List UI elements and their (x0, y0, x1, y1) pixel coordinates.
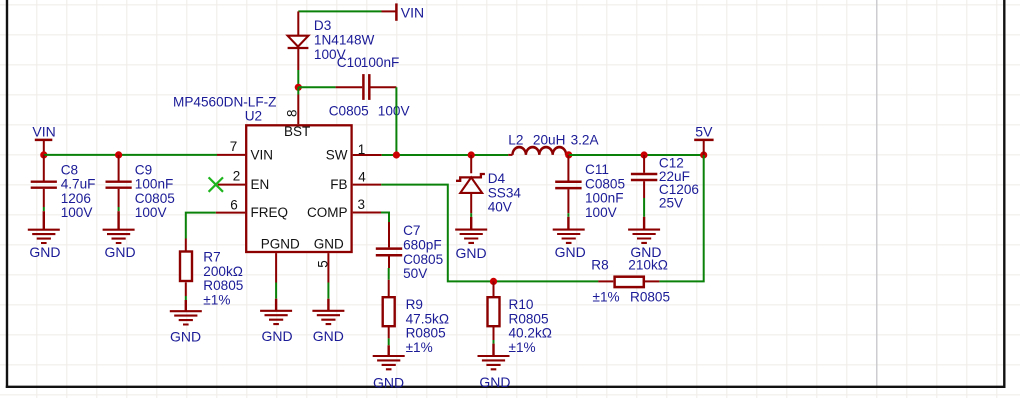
svg-text:20uH: 20uH (533, 133, 566, 148)
ground pin5 (327, 299, 329, 311)
resistor R10 (488, 281, 500, 340)
pin 5 GND (327, 253, 329, 282)
pin 1 SW (353, 154, 382, 156)
pin 7 VIN (217, 154, 245, 156)
svg-text:4.7uF: 4.7uF (61, 177, 96, 192)
svg-text:±1%: ±1% (593, 290, 620, 305)
svg-text:GND: GND (479, 374, 510, 390)
svg-text:C0805: C0805 (403, 252, 443, 267)
no-connect X on EN (209, 177, 223, 191)
node 5V corner (700, 151, 707, 158)
node D4 (468, 151, 475, 158)
wire 5V rail (569, 154, 704, 156)
svg-text:±1%: ±1% (406, 340, 433, 355)
svg-text:PGND: PGND (261, 236, 300, 251)
node C12 (641, 151, 648, 158)
svg-text:GND: GND (455, 245, 486, 261)
capacitor C7 (376, 222, 402, 268)
svg-text:C0805: C0805 (135, 191, 175, 206)
wire GND5 (327, 283, 329, 299)
power port VIN left (35, 140, 53, 155)
diode D3 (288, 11, 309, 70)
ground C12 (643, 217, 645, 230)
svg-text:EN: EN (251, 177, 270, 192)
svg-text:R7: R7 (203, 250, 220, 265)
wire (470, 213, 472, 217)
svg-text:C9: C9 (135, 162, 152, 177)
svg-text:47.5kΩ: 47.5kΩ (406, 311, 449, 326)
svg-text:L2: L2 (508, 133, 523, 148)
svg-text:100V: 100V (135, 205, 167, 220)
wire VIN top horizontal (298, 10, 381, 12)
node C9 junction (115, 151, 122, 158)
svg-text:100nF: 100nF (361, 55, 400, 70)
wire (118, 207, 120, 211)
svg-text:C0805: C0805 (329, 104, 369, 119)
svg-text:200kΩ: 200kΩ (203, 264, 243, 279)
capacitor C12 (631, 155, 657, 198)
sheet zone divider line (876, 0, 878, 386)
svg-text:GND: GND (314, 236, 344, 251)
svg-text:BST: BST (284, 124, 310, 139)
pin PGND (275, 253, 277, 282)
svg-text:7: 7 (230, 139, 238, 154)
svg-text:50V: 50V (403, 266, 427, 281)
svg-text:GND: GND (373, 374, 404, 390)
wire BST pin (297, 87, 299, 94)
svg-text:VIN: VIN (32, 123, 55, 139)
svg-text:GND: GND (555, 244, 586, 260)
svg-text:C10: C10 (337, 55, 362, 70)
node VIN junction (40, 151, 47, 158)
wire junction to C10 (298, 86, 335, 88)
svg-text:R0805: R0805 (509, 311, 549, 326)
node SW/C10 (393, 151, 400, 158)
svg-text:R9: R9 (406, 297, 423, 312)
resistor R8 (598, 277, 659, 287)
svg-text:100V: 100V (378, 104, 410, 119)
wire SW segment (382, 154, 509, 156)
capacitor C11 (555, 155, 581, 213)
wire (643, 198, 645, 217)
wire FREQ (186, 213, 216, 239)
power port 5V (694, 140, 713, 155)
wire R8 to 5V node (659, 155, 703, 281)
sheet border right (1003, 0, 1005, 388)
pin 8 BST (297, 95, 299, 125)
node BST junction (295, 84, 302, 91)
svg-text:COMP: COMP (307, 205, 348, 220)
svg-text:VIN: VIN (401, 5, 424, 21)
svg-text:R10: R10 (509, 297, 534, 312)
resistor R7 (180, 239, 192, 297)
wire VIN rail (44, 154, 217, 156)
ground C8 (43, 211, 45, 230)
capacitor C10 (336, 74, 397, 100)
svg-text:5: 5 (316, 260, 331, 268)
wire (43, 207, 45, 211)
svg-text:680pF: 680pF (403, 238, 442, 253)
node R10 (490, 278, 497, 285)
svg-text:D3: D3 (314, 18, 331, 33)
wire PGND (275, 283, 277, 299)
svg-text:2: 2 (233, 168, 241, 183)
svg-text:1206: 1206 (61, 191, 91, 206)
ground C9 (117, 211, 119, 230)
wire (185, 296, 187, 300)
pin 6 FREQ (216, 212, 245, 214)
svg-text:40.2kΩ: 40.2kΩ (509, 326, 552, 341)
svg-text:C0805: C0805 (585, 176, 625, 191)
ground R9 (388, 345, 390, 356)
svg-text:GND: GND (313, 328, 344, 344)
svg-text:FREQ: FREQ (251, 205, 289, 220)
svg-text:R0805: R0805 (630, 290, 670, 305)
diode D4 SS34 (456, 155, 485, 213)
pin 4 FB (353, 184, 382, 186)
inductor L2 (508, 147, 568, 155)
svg-text:R8: R8 (591, 258, 608, 273)
IC U2 MP4560DN-LF-Z body (246, 125, 351, 252)
svg-text:C7: C7 (403, 223, 420, 238)
capacitor C8 (31, 155, 57, 207)
sheet border bottom (6, 386, 1006, 388)
wire C10 to SW node (395, 87, 397, 155)
svg-text:FB: FB (330, 177, 347, 192)
svg-text:40V: 40V (488, 200, 512, 215)
pin 3 COMP (353, 212, 381, 214)
resistor R9 (383, 280, 395, 339)
power port VIN top (382, 3, 397, 20)
ground R10 (492, 344, 494, 356)
wire C7 to R9 (388, 268, 390, 280)
svg-text:SS34: SS34 (488, 185, 522, 200)
svg-text:D4: D4 (488, 171, 506, 186)
wire D3 to junction (297, 70, 299, 87)
wire (567, 213, 569, 217)
svg-text:100nF: 100nF (135, 177, 174, 192)
svg-text:R0805: R0805 (406, 326, 446, 341)
svg-text:100V: 100V (585, 205, 617, 220)
wire (493, 340, 495, 344)
node L2 out (565, 151, 572, 158)
wire COMP (381, 213, 389, 223)
svg-text:6: 6 (230, 197, 238, 212)
ground R7 (185, 300, 187, 311)
svg-text:±1%: ±1% (509, 340, 536, 355)
svg-text:3.2A: 3.2A (571, 133, 600, 148)
svg-text:VIN: VIN (251, 148, 274, 163)
svg-text:3: 3 (358, 197, 366, 212)
svg-text:5V: 5V (695, 124, 713, 140)
svg-text:GND: GND (104, 244, 135, 260)
svg-text:1: 1 (358, 142, 366, 157)
svg-text:25V: 25V (659, 195, 683, 210)
svg-text:4: 4 (358, 169, 366, 184)
svg-text:±1%: ±1% (203, 292, 230, 307)
svg-text:1N4148W: 1N4148W (314, 33, 375, 48)
ground D4 (470, 217, 472, 230)
svg-text:C11: C11 (585, 162, 609, 177)
svg-text:SW: SW (326, 148, 348, 163)
ground PGND (275, 299, 277, 311)
wire (388, 338, 390, 345)
pin 2 EN (218, 184, 245, 186)
svg-text:100nF: 100nF (585, 191, 624, 206)
svg-text:R0805: R0805 (203, 278, 243, 293)
sheet border left (6, 0, 8, 388)
wire FB net (381, 185, 598, 282)
svg-text:U2: U2 (245, 108, 262, 123)
svg-text:210kΩ: 210kΩ (628, 258, 668, 273)
capacitor C9 (106, 155, 132, 207)
svg-text:GND: GND (261, 328, 292, 344)
svg-text:C8: C8 (61, 162, 78, 177)
svg-text:GND: GND (170, 328, 201, 344)
svg-text:100V: 100V (61, 205, 93, 220)
svg-text:8: 8 (284, 109, 299, 117)
svg-text:GND: GND (29, 244, 60, 260)
ground C11 (567, 217, 569, 230)
